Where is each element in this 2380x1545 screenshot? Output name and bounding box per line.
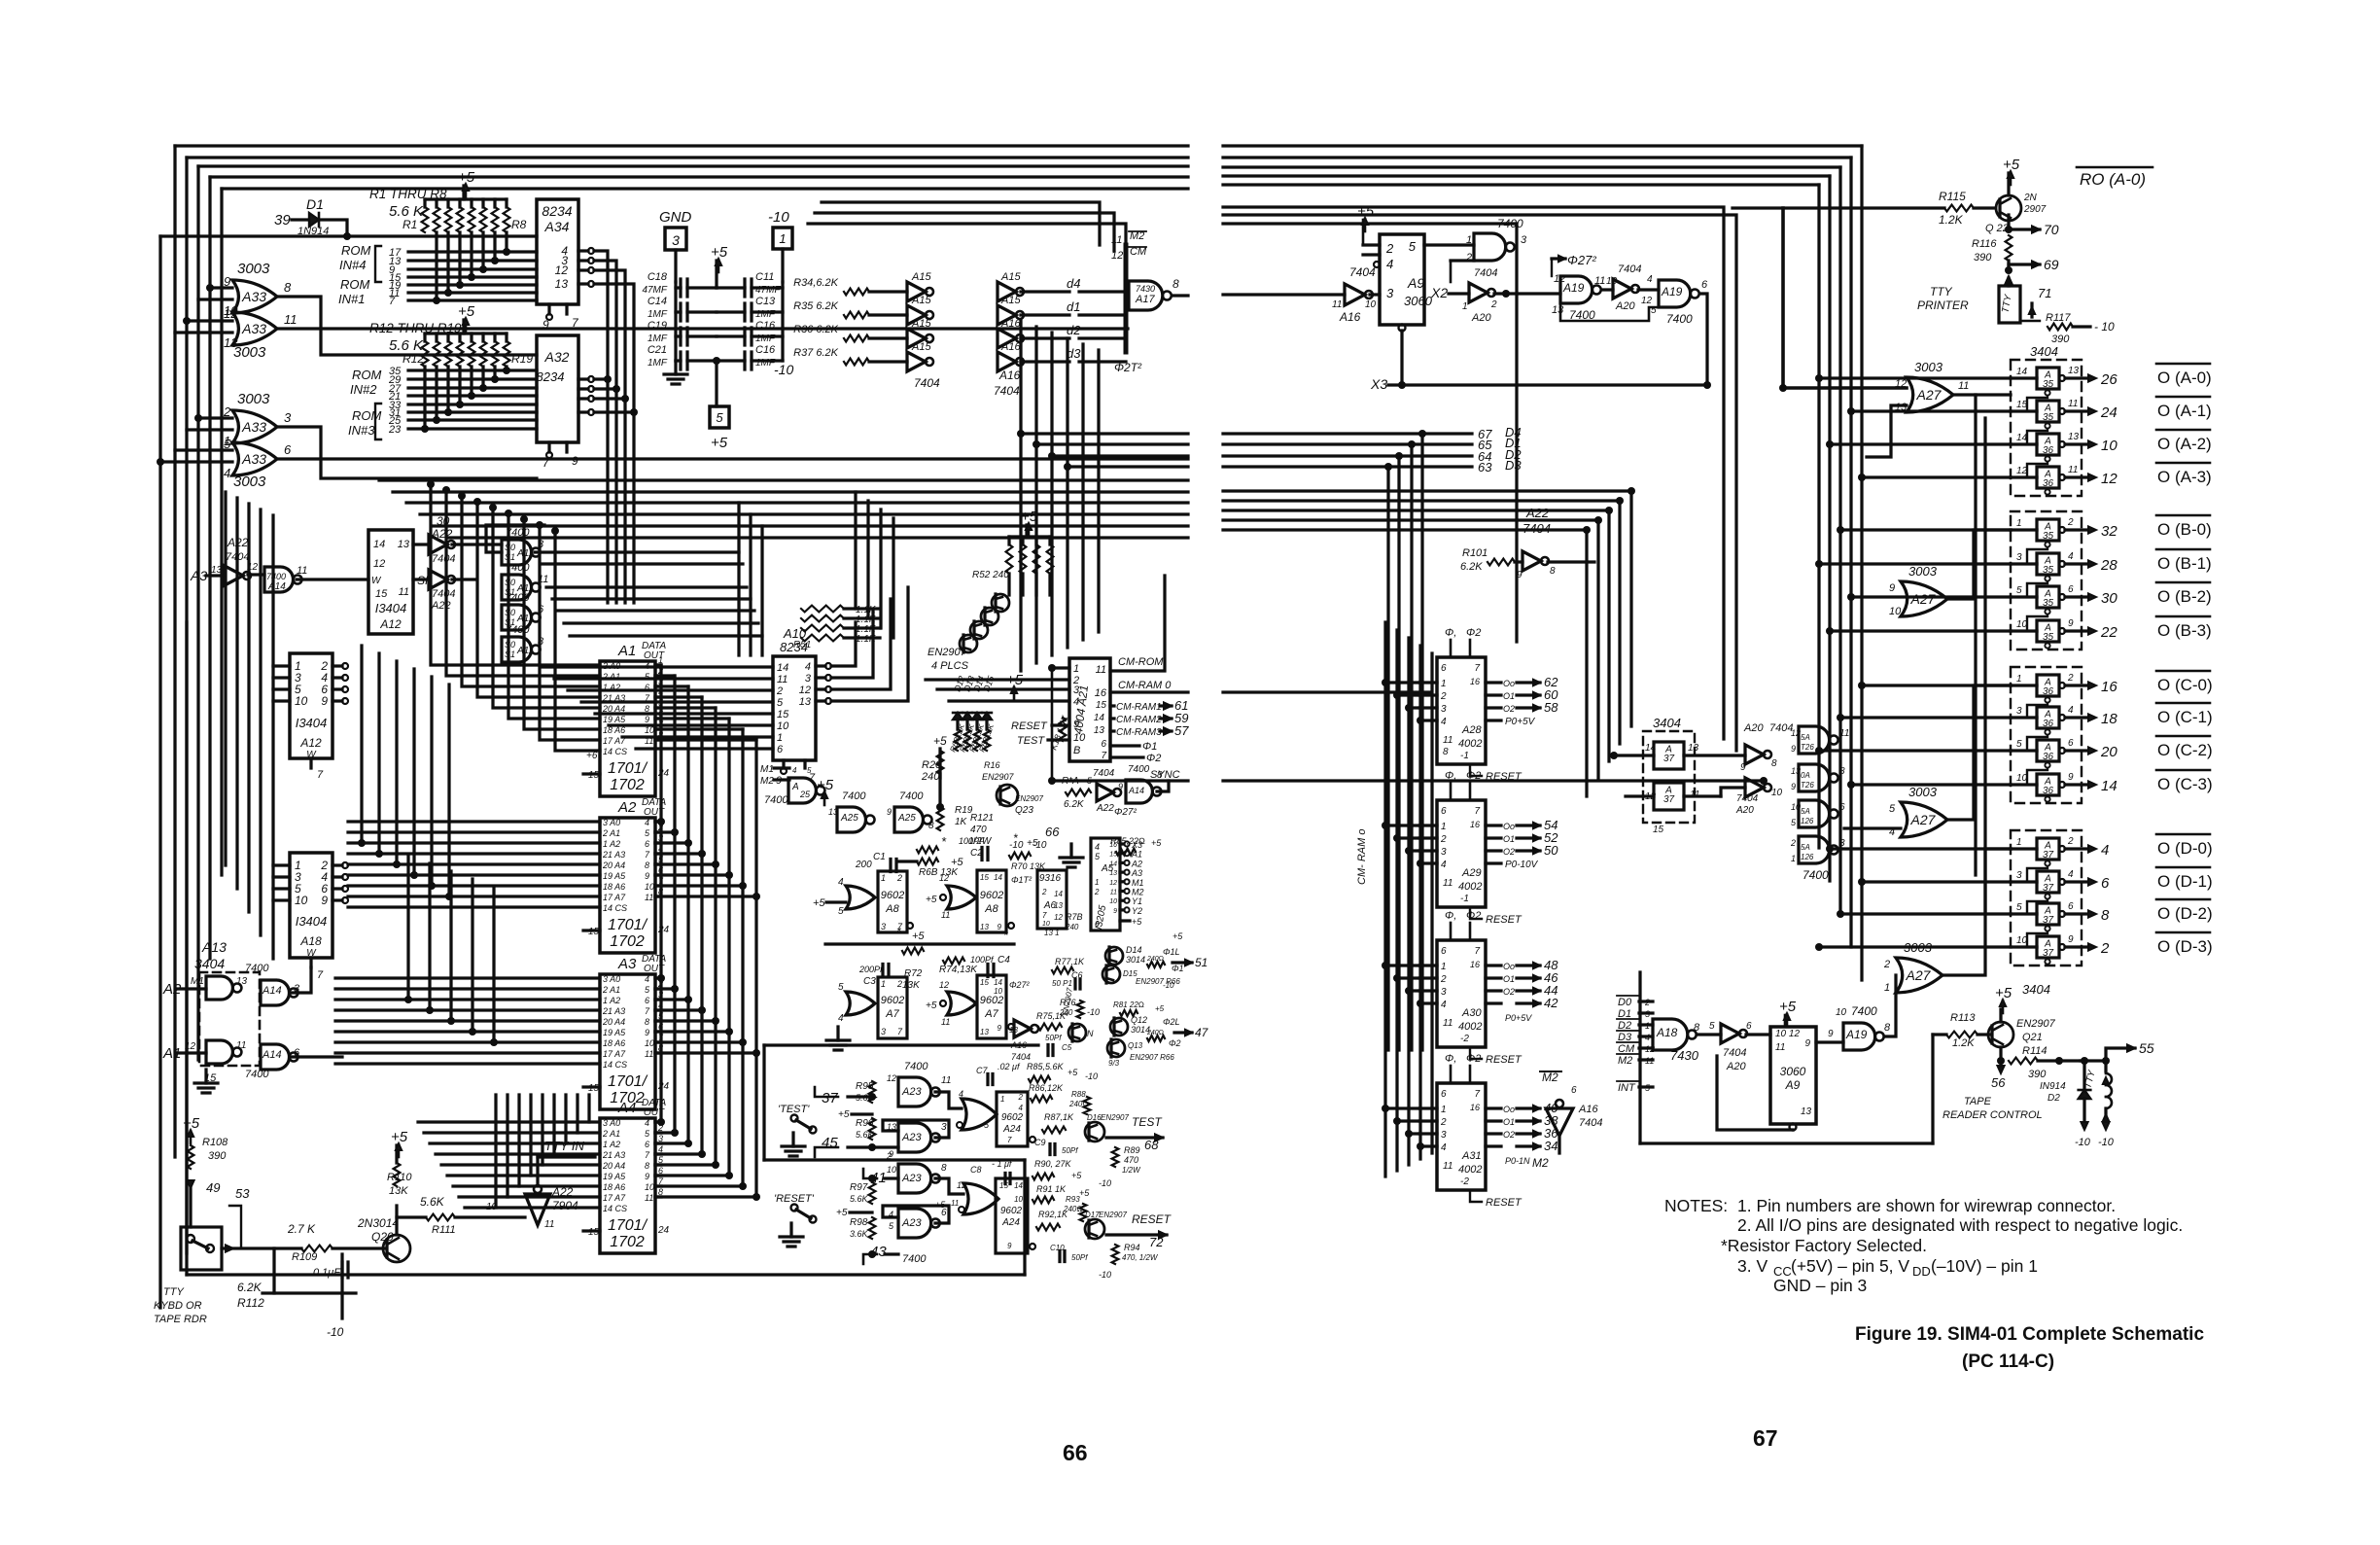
svg-text:19 A5: 19 A5 bbox=[603, 1028, 626, 1037]
svg-text:2: 2 bbox=[1018, 1093, 1024, 1102]
svg-text:9316: 9316 bbox=[1039, 873, 1062, 884]
svg-text:A22: A22 bbox=[551, 1185, 574, 1199]
svg-text:470: 470 bbox=[970, 825, 987, 835]
svg-text:7: 7 bbox=[1474, 663, 1480, 674]
svg-text:3: 3 bbox=[1441, 847, 1447, 858]
svg-text:18 A6: 18 A6 bbox=[603, 1182, 625, 1192]
svg-text:14: 14 bbox=[1645, 743, 1657, 754]
svg-text:C3: C3 bbox=[863, 976, 876, 987]
svg-text:M2: M2 bbox=[760, 776, 774, 787]
svg-text:O (D-0): O (D-0) bbox=[2157, 839, 2213, 858]
svg-text:1: 1 bbox=[1441, 679, 1447, 689]
svg-text:T26: T26 bbox=[1801, 743, 1814, 752]
svg-text:1: 1 bbox=[1791, 854, 1796, 863]
svg-text:3404: 3404 bbox=[1653, 716, 1681, 730]
svg-text:9: 9 bbox=[2068, 618, 2074, 629]
svg-text:R19: R19 bbox=[511, 352, 533, 366]
svg-text:16: 16 bbox=[1095, 687, 1107, 699]
svg-text:11: 11 bbox=[1443, 1161, 1452, 1172]
svg-text:50Pf: 50Pf bbox=[1062, 1146, 1078, 1155]
svg-text:15: 15 bbox=[1096, 700, 1107, 711]
svg-text:390: 390 bbox=[1974, 252, 1992, 263]
svg-text:3: 3 bbox=[672, 232, 680, 248]
svg-text:7400: 7400 bbox=[842, 790, 866, 802]
svg-text:NOTES:: NOTES: bbox=[1664, 1196, 1728, 1215]
svg-text:IN#2: IN#2 bbox=[350, 382, 377, 397]
svg-text:X2: X2 bbox=[1430, 285, 1448, 300]
svg-text:9: 9 bbox=[1517, 570, 1522, 580]
svg-text:9602: 9602 bbox=[881, 890, 904, 901]
svg-text:Q13: Q13 bbox=[1128, 1041, 1143, 1050]
svg-text:11: 11 bbox=[951, 1199, 959, 1208]
svg-text:8: 8 bbox=[1157, 770, 1163, 781]
svg-text:2: 2 bbox=[1490, 299, 1497, 310]
svg-text:I3404: I3404 bbox=[375, 601, 407, 615]
svg-text:2: 2 bbox=[776, 685, 783, 697]
svg-text:P0+5V: P0+5V bbox=[1505, 717, 1536, 727]
svg-text:9: 9 bbox=[321, 894, 328, 907]
svg-text:9: 9 bbox=[997, 923, 1002, 931]
svg-text:C10: C10 bbox=[1050, 1244, 1065, 1252]
svg-text:A28: A28 bbox=[1461, 724, 1482, 736]
svg-text:1701/: 1701/ bbox=[608, 1073, 648, 1090]
svg-text:37: 37 bbox=[2043, 883, 2054, 894]
svg-text:A20: A20 bbox=[1735, 805, 1754, 816]
svg-text:9602: 9602 bbox=[1001, 1112, 1024, 1123]
svg-text:15: 15 bbox=[980, 978, 989, 987]
svg-text:Φ2: Φ2 bbox=[1466, 627, 1481, 639]
svg-text:24: 24 bbox=[657, 925, 670, 935]
svg-text:10: 10 bbox=[1836, 1007, 1847, 1018]
svg-text:RO (A-0): RO (A-0) bbox=[2080, 170, 2146, 189]
svg-text:13: 13 bbox=[1109, 870, 1117, 877]
svg-text:12: 12 bbox=[939, 980, 949, 990]
svg-text:4: 4 bbox=[645, 818, 649, 827]
svg-text:45: 45 bbox=[822, 1135, 838, 1151]
svg-text:21 A3: 21 A3 bbox=[602, 850, 625, 860]
svg-text:14: 14 bbox=[994, 978, 1002, 987]
svg-text:Φ1: Φ1 bbox=[1172, 964, 1184, 973]
svg-text:1MF: 1MF bbox=[755, 358, 776, 369]
svg-text:11: 11 bbox=[1443, 878, 1452, 889]
svg-text:5: 5 bbox=[716, 410, 723, 425]
svg-text:6: 6 bbox=[1441, 946, 1447, 957]
svg-text:5: 5 bbox=[1709, 1021, 1715, 1032]
svg-text:17 A7: 17 A7 bbox=[603, 1049, 626, 1059]
svg-text:GND: GND bbox=[659, 209, 692, 226]
svg-text:A20: A20 bbox=[1471, 312, 1491, 324]
svg-text:240Ω: 240Ω bbox=[1146, 956, 1164, 963]
svg-text:+5: +5 bbox=[817, 777, 834, 793]
svg-text:C16: C16 bbox=[755, 344, 776, 356]
svg-text:+5: +5 bbox=[458, 303, 475, 320]
svg-text:8: 8 bbox=[645, 1161, 649, 1171]
svg-text:8: 8 bbox=[1771, 758, 1777, 769]
svg-text:O (B-0): O (B-0) bbox=[2157, 520, 2212, 539]
svg-text:*: * bbox=[1013, 831, 1018, 845]
svg-text:37: 37 bbox=[2043, 915, 2054, 926]
svg-text:6.2K: 6.2K bbox=[237, 1281, 262, 1294]
svg-text:2: 2 bbox=[1440, 974, 1447, 985]
svg-text:R97: R97 bbox=[850, 1182, 868, 1193]
svg-text:R86,12K: R86,12K bbox=[1029, 1083, 1064, 1093]
svg-text:O (B-3): O (B-3) bbox=[2157, 621, 2212, 640]
svg-text:16: 16 bbox=[1470, 677, 1480, 686]
svg-text:R37 6.2K: R37 6.2K bbox=[793, 347, 839, 359]
svg-text:37: 37 bbox=[1663, 754, 1675, 764]
svg-text:O (A-1): O (A-1) bbox=[2157, 402, 2212, 420]
svg-text:11: 11 bbox=[2068, 399, 2078, 409]
svg-text:1: 1 bbox=[2016, 518, 2022, 529]
svg-text:Φ2: Φ2 bbox=[1169, 1038, 1181, 1048]
svg-text:A15: A15 bbox=[1000, 271, 1021, 283]
svg-text:2 A1: 2 A1 bbox=[602, 1129, 620, 1139]
svg-text:7: 7 bbox=[1474, 946, 1480, 957]
svg-text:A23: A23 bbox=[901, 1086, 922, 1098]
svg-text:A25: A25 bbox=[897, 813, 916, 824]
svg-text:6: 6 bbox=[284, 442, 292, 457]
svg-text:19 A5: 19 A5 bbox=[603, 1172, 626, 1181]
svg-text:7404: 7404 bbox=[1011, 1052, 1031, 1062]
svg-text:6: 6 bbox=[2068, 901, 2074, 912]
svg-text:4002: 4002 bbox=[1458, 738, 1482, 750]
svg-text:7: 7 bbox=[1007, 1136, 1012, 1144]
svg-text:7404: 7404 bbox=[1579, 1117, 1602, 1129]
svg-text:37: 37 bbox=[2043, 948, 2054, 959]
svg-text:2: 2 bbox=[896, 873, 902, 883]
svg-text:6: 6 bbox=[1839, 802, 1845, 813]
svg-text:d1: d1 bbox=[1067, 299, 1080, 314]
svg-text:-2: -2 bbox=[1460, 1176, 1469, 1187]
svg-text:R8: R8 bbox=[511, 218, 527, 231]
svg-text:SYNC: SYNC bbox=[1150, 769, 1180, 781]
svg-text:12: 12 bbox=[1054, 913, 1063, 922]
svg-text:9: 9 bbox=[2068, 772, 2074, 783]
svg-text:ROM: ROM bbox=[352, 408, 382, 423]
svg-text:5A: 5A bbox=[1801, 807, 1810, 816]
svg-text:58: 58 bbox=[1544, 700, 1558, 715]
svg-text:(+5V) – pin 5, V: (+5V) – pin 5, V bbox=[1791, 1256, 1909, 1276]
svg-text:d4: d4 bbox=[1067, 276, 1080, 291]
svg-text:7404: 7404 bbox=[1349, 265, 1376, 279]
svg-text:Φ,: Φ, bbox=[1445, 910, 1456, 922]
svg-text:Φ2: Φ2 bbox=[1146, 753, 1161, 764]
svg-text:9: 9 bbox=[1740, 762, 1746, 773]
svg-text:13: 13 bbox=[1688, 743, 1699, 754]
svg-text:A8: A8 bbox=[885, 903, 899, 915]
svg-text:4: 4 bbox=[792, 766, 797, 775]
svg-text:12: 12 bbox=[887, 1073, 896, 1083]
svg-text:KYBD OR: KYBD OR bbox=[154, 1300, 202, 1312]
svg-text:2: 2 bbox=[2067, 836, 2074, 847]
svg-text:O2: O2 bbox=[1503, 987, 1515, 997]
svg-text:R51: R51 bbox=[793, 640, 811, 650]
svg-text:A14: A14 bbox=[262, 985, 282, 997]
svg-text:3 A0: 3 A0 bbox=[603, 1118, 620, 1128]
svg-text:50Pf: 50Pf bbox=[1071, 1253, 1088, 1262]
svg-text:RESET: RESET bbox=[1486, 1054, 1522, 1066]
svg-text:1701/: 1701/ bbox=[608, 1217, 648, 1234]
svg-text:18: 18 bbox=[2101, 711, 2117, 727]
svg-text:56: 56 bbox=[1991, 1075, 2006, 1090]
svg-text:PRINTER: PRINTER bbox=[1917, 298, 1969, 312]
svg-text:6.2K: 6.2K bbox=[1460, 561, 1483, 573]
svg-text:+5: +5 bbox=[1779, 999, 1797, 1015]
svg-text:51: 51 bbox=[1195, 956, 1207, 969]
svg-text:6: 6 bbox=[1095, 920, 1100, 929]
svg-text:R81 22Ω: R81 22Ω bbox=[1113, 1001, 1144, 1009]
svg-text:10: 10 bbox=[2016, 935, 2028, 946]
svg-text:R1: R1 bbox=[402, 218, 417, 231]
svg-text:10: 10 bbox=[645, 1182, 654, 1192]
svg-text:O (D-3): O (D-3) bbox=[2157, 937, 2213, 956]
svg-text:13: 13 bbox=[980, 1028, 989, 1036]
svg-text:7400: 7400 bbox=[245, 1069, 269, 1080]
svg-text:13: 13 bbox=[1801, 1106, 1812, 1117]
svg-text:+5: +5 bbox=[1155, 1004, 1165, 1013]
svg-text:7430: 7430 bbox=[1136, 284, 1155, 294]
svg-text:126: 126 bbox=[1801, 817, 1814, 825]
svg-text:15: 15 bbox=[1653, 825, 1664, 835]
svg-text:1: 1 bbox=[1441, 1105, 1447, 1115]
svg-text:A9: A9 bbox=[1407, 275, 1424, 291]
svg-text:+5: +5 bbox=[813, 897, 825, 909]
svg-text:10: 10 bbox=[777, 720, 789, 732]
svg-text:100PF: 100PF bbox=[959, 836, 985, 846]
svg-text:12: 12 bbox=[555, 263, 569, 277]
svg-text:A19: A19 bbox=[1661, 285, 1683, 298]
svg-text:0.1μF: 0.1μF bbox=[313, 1267, 341, 1279]
svg-text:1. Pin numbers are shown for: 1. Pin numbers are shown for wirewrap co… bbox=[1737, 1196, 2116, 1215]
svg-text:36: 36 bbox=[2043, 478, 2054, 489]
svg-text:14: 14 bbox=[373, 539, 385, 550]
svg-text:O (B-2): O (B-2) bbox=[2157, 587, 2212, 606]
svg-text:Φ2: Φ2 bbox=[1466, 910, 1481, 922]
svg-text:1N914: 1N914 bbox=[297, 226, 329, 237]
svg-text:12: 12 bbox=[939, 873, 949, 883]
svg-text:O (A-2): O (A-2) bbox=[2157, 435, 2212, 453]
svg-text:5: 5 bbox=[2016, 585, 2022, 596]
svg-text:1: 1 bbox=[1462, 301, 1468, 312]
svg-text:R116: R116 bbox=[1972, 238, 1997, 250]
svg-text:6: 6 bbox=[777, 744, 784, 755]
svg-text:Φ2T²: Φ2T² bbox=[1114, 361, 1142, 374]
svg-text:10: 10 bbox=[1042, 921, 1050, 928]
svg-text:Q12: Q12 bbox=[1131, 1015, 1147, 1025]
svg-text:10: 10 bbox=[1365, 299, 1377, 310]
svg-text:7404: 7404 bbox=[994, 384, 1020, 398]
svg-text:30: 30 bbox=[2101, 590, 2117, 607]
svg-text:D0: D0 bbox=[1618, 997, 1632, 1008]
svg-text:R*A: R*A bbox=[1062, 776, 1079, 787]
svg-text:C8: C8 bbox=[970, 1165, 982, 1175]
svg-text:2: 2 bbox=[1385, 241, 1394, 256]
svg-text:7: 7 bbox=[317, 769, 324, 781]
svg-text:P0-10V: P0-10V bbox=[1505, 860, 1539, 870]
svg-text:A23: A23 bbox=[901, 1132, 922, 1143]
svg-text:R112: R112 bbox=[237, 1296, 264, 1310]
svg-text:11: 11 bbox=[1096, 664, 1106, 676]
svg-text:1701/: 1701/ bbox=[608, 760, 648, 777]
svg-text:24: 24 bbox=[2100, 404, 2117, 421]
svg-text:2: 2 bbox=[1041, 888, 1047, 896]
svg-text:A12: A12 bbox=[379, 617, 402, 631]
svg-text:-10: -10 bbox=[1085, 1071, 1098, 1081]
svg-text:R114: R114 bbox=[2022, 1045, 2047, 1057]
svg-text:R35 6.2K: R35 6.2K bbox=[793, 300, 839, 312]
svg-text:19 A5: 19 A5 bbox=[603, 715, 626, 724]
svg-text:10: 10 bbox=[1791, 802, 1801, 812]
svg-text:9: 9 bbox=[572, 454, 578, 468]
svg-text:10: 10 bbox=[645, 1038, 654, 1048]
svg-text:9: 9 bbox=[887, 807, 892, 817]
svg-text:7904: 7904 bbox=[552, 1199, 578, 1212]
svg-text:A9: A9 bbox=[1785, 1078, 1801, 1092]
svg-text:9: 9 bbox=[997, 1024, 1002, 1033]
svg-text:R92,1K: R92,1K bbox=[1038, 1210, 1068, 1219]
svg-text:1.2K: 1.2K bbox=[1939, 213, 1964, 227]
svg-text:3404: 3404 bbox=[194, 956, 225, 971]
svg-text:11: 11 bbox=[1839, 728, 1849, 739]
svg-text:A12: A12 bbox=[299, 736, 322, 750]
svg-text:17 A7: 17 A7 bbox=[603, 893, 626, 902]
svg-text:35: 35 bbox=[2043, 565, 2054, 576]
svg-text:9: 9 bbox=[1791, 744, 1796, 754]
svg-text:A22: A22 bbox=[1096, 803, 1114, 814]
svg-text:10: 10 bbox=[1014, 1195, 1023, 1204]
svg-text:7400: 7400 bbox=[899, 790, 924, 802]
svg-text:3: 3 bbox=[1441, 704, 1447, 715]
svg-text:-10: -10 bbox=[774, 362, 793, 377]
svg-text:A16: A16 bbox=[1000, 341, 1021, 353]
svg-text:2 A1: 2 A1 bbox=[602, 985, 620, 995]
svg-text:+5: +5 bbox=[2003, 157, 2020, 173]
svg-text:20: 20 bbox=[2100, 744, 2117, 760]
svg-text:A18: A18 bbox=[299, 934, 322, 948]
svg-text:R85,5.6K: R85,5.6K bbox=[1027, 1062, 1065, 1071]
svg-text:TTY: TTY bbox=[163, 1286, 184, 1298]
svg-text:3: 3 bbox=[1521, 234, 1527, 246]
svg-text:1: 1 bbox=[1441, 822, 1447, 832]
svg-text:C18: C18 bbox=[647, 271, 668, 283]
svg-text:D16: D16 bbox=[1087, 1113, 1102, 1122]
svg-text:67: 67 bbox=[1753, 1425, 1778, 1451]
svg-text:10: 10 bbox=[2101, 438, 2117, 454]
svg-text:A24: A24 bbox=[1002, 1124, 1021, 1135]
svg-text:TTY: TTY bbox=[1930, 285, 1953, 298]
svg-text:4: 4 bbox=[2068, 705, 2074, 716]
svg-text:14 CS: 14 CS bbox=[603, 903, 627, 913]
svg-text:Φ2: Φ2 bbox=[1466, 1053, 1481, 1065]
svg-text:RESET: RESET bbox=[1011, 720, 1048, 732]
svg-text:TAPE: TAPE bbox=[1964, 1096, 1992, 1107]
svg-text:D2: D2 bbox=[2047, 1093, 2060, 1104]
svg-text:A15: A15 bbox=[911, 318, 931, 330]
svg-text:A3: A3 bbox=[1131, 868, 1142, 878]
svg-text:8234: 8234 bbox=[537, 369, 565, 384]
svg-text:CM-RAM3: CM-RAM3 bbox=[1116, 727, 1162, 738]
svg-text:9: 9 bbox=[645, 1172, 649, 1181]
svg-text:21 A3: 21 A3 bbox=[602, 1006, 625, 1016]
svg-text:O1: O1 bbox=[1503, 834, 1515, 844]
svg-text:7: 7 bbox=[1101, 751, 1106, 761]
svg-text:D14: D14 bbox=[1126, 945, 1142, 955]
svg-text:11: 11 bbox=[284, 312, 297, 327]
svg-text:11: 11 bbox=[297, 565, 307, 577]
svg-text:R101: R101 bbox=[1462, 547, 1487, 559]
svg-text:10: 10 bbox=[2016, 773, 2028, 784]
svg-text:+5: +5 bbox=[1995, 985, 2012, 1001]
svg-text:M1: M1 bbox=[1132, 878, 1144, 888]
svg-text:47MF: 47MF bbox=[642, 285, 667, 296]
svg-text:A13: A13 bbox=[201, 939, 227, 955]
svg-text:1: 1 bbox=[881, 979, 886, 989]
svg-text:1K: 1K bbox=[955, 817, 968, 827]
svg-text:+5: +5 bbox=[1067, 1068, 1078, 1077]
svg-text:A20: A20 bbox=[1743, 722, 1764, 734]
svg-text:1702: 1702 bbox=[610, 1234, 645, 1250]
svg-text:4: 4 bbox=[2068, 869, 2074, 880]
svg-text:34: 34 bbox=[1544, 1139, 1557, 1153]
svg-text:4: 4 bbox=[1647, 274, 1653, 285]
svg-text:25: 25 bbox=[799, 790, 811, 799]
svg-text:3: 3 bbox=[881, 1027, 886, 1036]
svg-text:W: W bbox=[371, 576, 382, 586]
svg-text:36: 36 bbox=[2043, 752, 2054, 762]
svg-text:R90, 27K: R90, 27K bbox=[1034, 1159, 1072, 1169]
svg-text:13: 13 bbox=[1791, 766, 1801, 776]
svg-text:16: 16 bbox=[1470, 1103, 1480, 1112]
svg-text:A16: A16 bbox=[998, 369, 1021, 382]
svg-text:9602: 9602 bbox=[980, 890, 1003, 901]
svg-text:B: B bbox=[1073, 745, 1080, 756]
svg-text:3 A0: 3 A0 bbox=[603, 818, 620, 827]
svg-text:R108: R108 bbox=[202, 1137, 228, 1148]
svg-text:O (C-2): O (C-2) bbox=[2157, 741, 2213, 759]
svg-text:R85,22Ω: R85,22Ω bbox=[1110, 836, 1145, 846]
svg-text:+5: +5 bbox=[711, 435, 728, 451]
svg-text:7404: 7404 bbox=[1736, 793, 1759, 804]
svg-text:M2: M2 bbox=[1532, 1156, 1549, 1170]
svg-text:15: 15 bbox=[777, 709, 789, 720]
svg-text:7400: 7400 bbox=[245, 963, 269, 974]
svg-text:3003: 3003 bbox=[1908, 564, 1938, 579]
svg-text:R115: R115 bbox=[1939, 190, 1966, 203]
svg-text:9: 9 bbox=[1828, 1029, 1834, 1039]
svg-text:19 A5: 19 A5 bbox=[603, 871, 626, 881]
svg-text:Oo: Oo bbox=[1503, 1105, 1515, 1114]
svg-text:8: 8 bbox=[1172, 277, 1179, 291]
svg-text:6: 6 bbox=[1101, 739, 1106, 750]
svg-text:A31: A31 bbox=[1461, 1150, 1482, 1162]
svg-text:7400: 7400 bbox=[1497, 217, 1523, 230]
svg-text:A20: A20 bbox=[1726, 1061, 1746, 1072]
svg-text:13: 13 bbox=[398, 539, 410, 550]
svg-text:11: 11 bbox=[941, 1075, 951, 1086]
svg-text:INT: INT bbox=[1618, 1082, 1636, 1094]
svg-text:1.2K: 1.2K bbox=[1952, 1037, 1975, 1049]
svg-text:4: 4 bbox=[1441, 717, 1447, 727]
svg-text:-2: -2 bbox=[1460, 1034, 1469, 1044]
svg-text:1: 1 bbox=[1000, 1095, 1004, 1104]
svg-text:36: 36 bbox=[2043, 686, 2054, 697]
svg-text:CM-RAM1: CM-RAM1 bbox=[1116, 702, 1162, 713]
svg-text:6: 6 bbox=[1441, 663, 1447, 674]
svg-text:3003: 3003 bbox=[1914, 360, 1943, 374]
svg-text:9: 9 bbox=[1007, 1242, 1012, 1250]
svg-text:-10: -10 bbox=[1163, 981, 1174, 990]
svg-text:A14: A14 bbox=[1128, 786, 1144, 795]
